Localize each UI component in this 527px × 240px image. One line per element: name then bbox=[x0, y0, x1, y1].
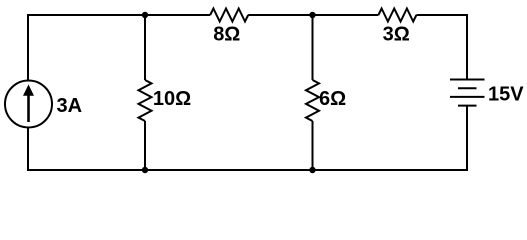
junction node: top of 10-ohm branch bbox=[142, 12, 148, 18]
junction node: bottom of 10-ohm branch bbox=[142, 167, 148, 173]
junction node: top of 6-ohm branch bbox=[309, 12, 315, 18]
svg-text:10Ω: 10Ω bbox=[153, 88, 191, 110]
battery V1 15V (alternating long/short plates) bbox=[450, 80, 485, 106]
wire: 10-ohm branch upper stub bbox=[144, 15, 146, 80]
svg-text:3A: 3A bbox=[57, 95, 83, 117]
svg-text:8Ω: 8Ω bbox=[213, 24, 240, 46]
wire: top rail segment from 3-ohm resistor to top-right corner bbox=[416, 14, 467, 16]
junction node: bottom of 6-ohm branch bbox=[309, 167, 315, 173]
wire: 6-ohm branch upper stub bbox=[312, 15, 314, 80]
wire: 6-ohm branch lower stub bbox=[312, 121, 314, 170]
current source I1 (circle with upward arrow) bbox=[5, 81, 52, 128]
resistor R4 6Ω (vertical zigzag) bbox=[306, 80, 319, 121]
svg-text:15V: 15V bbox=[488, 84, 524, 106]
wire: top rail segment from top-left corner to 8-ohm resistor bbox=[28, 14, 210, 16]
wire: bottom rail bbox=[28, 169, 467, 171]
wire: right rail lower segment (battery down to bottom-right corner) bbox=[466, 106, 468, 171]
wire: left rail upper segment (top-left corner down to current source) bbox=[27, 14, 29, 81]
wire: right rail upper segment (top-right corner down to battery) bbox=[466, 14, 468, 80]
svg-text:3Ω: 3Ω bbox=[383, 24, 410, 46]
wire: top rail segment from 8-ohm resistor to 3-ohm resistor bbox=[248, 14, 378, 16]
resistor R1 8Ω (horizontal zigzag, top) bbox=[210, 9, 248, 22]
wire: left rail lower segment (current source down to bottom-left corner) bbox=[27, 127, 29, 171]
resistor R3 10Ω (vertical zigzag) bbox=[139, 80, 152, 121]
wire: 10-ohm branch lower stub bbox=[144, 121, 146, 170]
svg-text:6Ω: 6Ω bbox=[319, 88, 346, 110]
resistor R2 3Ω (horizontal zigzag, top right) bbox=[378, 9, 416, 22]
